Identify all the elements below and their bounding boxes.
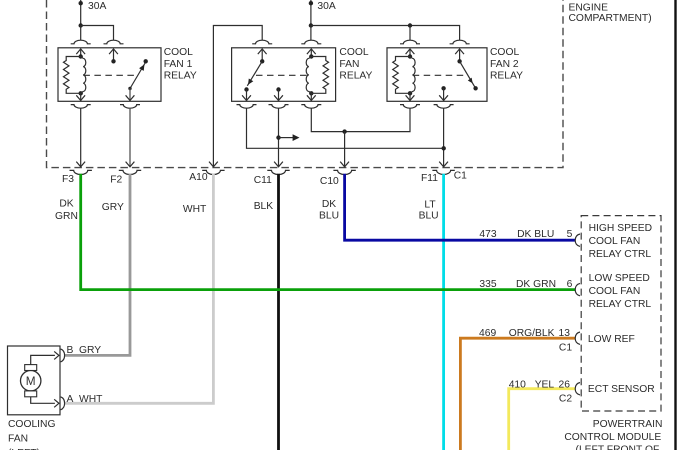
svg-text:A: A	[67, 394, 74, 405]
wire GRY F2 to cooling fan	[65, 174, 130, 356]
wire YEL to PCM pin 26	[509, 389, 576, 450]
wire relay1 coil to F3	[80, 108, 82, 166]
wire color labels	[55, 198, 439, 222]
relay K1 coil bottom arrow	[76, 93, 85, 101]
svg-text:C2: C2	[559, 394, 572, 405]
motor pin B label	[67, 345, 102, 356]
junction above F11	[442, 146, 446, 150]
fuse 1 30A feed wire	[79, 0, 107, 26]
svg-text:BLK: BLK	[254, 201, 274, 212]
wire relay1 switch to F2	[129, 108, 131, 166]
wire fuse1 to relay1 coil	[80, 26, 82, 41]
svg-text:C1: C1	[559, 343, 572, 354]
wire relay coils bus to C10	[311, 108, 410, 131]
svg-text:GRY: GRY	[79, 345, 101, 356]
relay K2 coil bottom arrow	[307, 93, 316, 101]
wire 469 ORG/BLK labels	[479, 328, 572, 353]
svg-text:30A: 30A	[88, 1, 106, 12]
connector F11	[432, 170, 454, 174]
relay K2 coil	[306, 54, 328, 95]
svg-text:BLU: BLU	[319, 210, 339, 221]
svg-text:RELAY: RELAY	[490, 71, 523, 82]
wire DK GRN F3 to PCM pin 6	[81, 174, 576, 290]
relay K3 coil top connector	[400, 40, 420, 44]
svg-text:C11: C11	[254, 175, 272, 186]
junction above C10	[342, 129, 346, 133]
connector F2	[119, 170, 141, 174]
svg-text:YEL: YEL	[535, 379, 555, 390]
arrow into C10	[340, 162, 349, 167]
svg-text:469: 469	[479, 328, 496, 339]
engine compartment label	[569, 2, 652, 24]
relay K1 coil	[63, 54, 85, 95]
svg-text:ORG/BLK: ORG/BLK	[509, 328, 555, 339]
svg-text:COOL: COOL	[164, 47, 193, 58]
svg-text:COOL FAN: COOL FAN	[589, 286, 641, 297]
svg-text:BLU: BLU	[419, 210, 439, 221]
svg-text:M: M	[26, 374, 36, 388]
connector pin labels	[62, 171, 467, 188]
relay K1 switch pin shaft	[126, 89, 135, 102]
relay K3 coil bottom arrow	[406, 93, 415, 101]
wire fuse2 down to cool fan relay coil	[310, 26, 312, 41]
wire 410 YEL labels	[509, 379, 573, 404]
relay K1 actuator dashed link	[83, 74, 136, 76]
cooling fan label	[8, 419, 56, 450]
motor pin A label	[67, 394, 104, 405]
connector C10	[333, 170, 355, 174]
svg-text:LT: LT	[424, 199, 436, 210]
svg-text:C10: C10	[320, 176, 339, 187]
svg-text:335: 335	[479, 279, 496, 290]
svg-text:DK BLU: DK BLU	[517, 229, 554, 240]
wire relay2 switch to junction bus	[247, 108, 444, 148]
relay K1 pin 86 top connector	[104, 40, 124, 44]
relay K2 bottom connectors	[237, 105, 322, 109]
relay K2 switch bottom pin	[242, 87, 251, 101]
relay K3 actuator dashed link	[413, 74, 466, 76]
relay K1 label	[164, 47, 197, 81]
svg-text:ENGINE: ENGINE	[569, 2, 609, 13]
powertrain control module dashed box	[581, 216, 661, 411]
cooling fan motor box	[8, 346, 61, 415]
relay K2 switch top pin	[258, 49, 267, 64]
relay K1 coil pin arrow	[76, 49, 85, 57]
svg-text:6: 6	[567, 279, 573, 290]
connector A10	[202, 170, 224, 174]
connector C11	[267, 170, 289, 174]
relay K3 switch top pin	[455, 49, 464, 64]
svg-text:WHT: WHT	[183, 204, 207, 215]
wire WHT A10 to cooling fan	[65, 174, 214, 403]
svg-text:RELAY CTRL: RELAY CTRL	[589, 299, 652, 310]
relay K3 COOL FAN 2 RELAY box	[387, 48, 487, 102]
PCM pin 6 connector arc	[575, 283, 580, 295]
relay K1 bottom connectors	[71, 105, 140, 109]
relay K1 coil pin 85 top connector	[71, 40, 91, 44]
svg-text:FAN: FAN	[339, 59, 359, 70]
svg-text:WHT: WHT	[79, 394, 103, 405]
wire DK BLU C10 to PCM pin 5	[345, 174, 576, 240]
off-page arrow at C11 junction	[279, 134, 300, 141]
wire 473 DK BLU labels	[479, 229, 572, 240]
motor pin B connector arc	[61, 349, 65, 362]
svg-text:COOLING: COOLING	[8, 419, 56, 430]
svg-text:COOL: COOL	[339, 47, 368, 58]
svg-text:LOW REF: LOW REF	[588, 334, 635, 345]
svg-text:473: 473	[479, 229, 496, 240]
relay K2 COOL FAN RELAY box	[232, 48, 336, 102]
svg-text:COOL FAN: COOL FAN	[589, 236, 641, 247]
relay K2 fixed contact stub pin	[274, 87, 283, 101]
svg-text:GRN: GRN	[55, 211, 78, 222]
svg-text:GRY: GRY	[102, 202, 124, 213]
junction under fuse 2	[309, 23, 313, 27]
relay K3 bottom connectors	[400, 105, 454, 109]
svg-text:POWERTRAIN: POWERTRAIN	[593, 419, 663, 430]
svg-text:FAN 2: FAN 2	[490, 59, 519, 70]
PCM name label	[564, 419, 662, 450]
svg-text:(LEFT FRONT OF: (LEFT FRONT OF	[576, 445, 660, 450]
relay K3 coil top arrow	[406, 49, 415, 57]
svg-text:ECT SENSOR: ECT SENSOR	[588, 384, 655, 395]
wire ORG/BLK to PCM pin 13	[460, 338, 575, 450]
svg-text:RELAY: RELAY	[339, 71, 372, 82]
wire junction to C10	[344, 132, 346, 167]
svg-text:DK: DK	[59, 198, 73, 209]
motor M1 symbol	[21, 365, 41, 397]
svg-text:COOL: COOL	[490, 47, 519, 58]
svg-text:B: B	[67, 345, 74, 356]
svg-text:F3: F3	[62, 174, 74, 185]
svg-text:F11: F11	[421, 173, 438, 184]
svg-text:DK GRN: DK GRN	[516, 279, 556, 290]
wire BLK C11 down	[277, 174, 280, 450]
svg-text:30A: 30A	[317, 1, 335, 12]
motor pin A connector arc	[61, 397, 65, 410]
svg-text:26: 26	[559, 379, 571, 390]
PCM pin 5 connector arc	[575, 234, 580, 246]
svg-text:C1: C1	[454, 171, 467, 182]
engine compartment dashed box	[47, 0, 564, 168]
wire A10 riser to cool fan relay switch	[213, 26, 262, 167]
svg-text:RELAY: RELAY	[164, 71, 197, 82]
relay K3 label	[490, 47, 523, 81]
arrow into F3	[76, 162, 85, 167]
connector F3	[70, 170, 92, 174]
arrow into A10	[209, 162, 218, 167]
relay K2 switch top connector	[252, 40, 272, 44]
relay K1 switch arm	[128, 59, 148, 90]
svg-text:LOW SPEED: LOW SPEED	[589, 273, 650, 284]
svg-text:13: 13	[559, 328, 571, 339]
wire fuse2 to relay coils and relay2 switch	[311, 26, 460, 41]
relay K3 switch arm	[460, 61, 478, 90]
svg-text:RELAY CTRL: RELAY CTRL	[589, 249, 652, 260]
wire fuse1 to relay1 pin2	[81, 26, 114, 41]
relay K2 switch arm	[247, 61, 262, 86]
svg-text:COMPARTMENT): COMPARTMENT)	[569, 13, 652, 24]
relay K2 label	[339, 47, 372, 81]
motor pin A wire	[31, 397, 59, 408]
fuse 2 30A feed wire	[309, 0, 336, 26]
page border line	[674, 0, 676, 450]
relay K2 coil top connector	[301, 40, 321, 44]
relay K3 switch output stub pin	[439, 86, 448, 101]
svg-text:FAN 1: FAN 1	[164, 59, 193, 70]
junction at relay2 coil feed	[408, 23, 412, 27]
relay K1 fixed contact stub	[109, 49, 118, 64]
arrow into F11	[439, 162, 448, 167]
relay K3 coil	[393, 54, 415, 95]
arrow into C11	[274, 162, 283, 167]
svg-text:F2: F2	[110, 174, 122, 185]
svg-text:410: 410	[509, 379, 526, 390]
wire relay3 output to F11	[443, 108, 445, 166]
junction on C11 wire	[276, 135, 280, 139]
PCM pin 13 connector arc	[575, 332, 580, 344]
svg-text:DK: DK	[322, 199, 336, 210]
PCM pin 26 connector arc	[575, 383, 580, 395]
junction under fuse 1	[79, 23, 83, 27]
svg-text:5: 5	[567, 229, 573, 240]
relay K2 coil top arrow	[307, 49, 316, 57]
relay K1 COOL FAN 1 RELAY box	[58, 48, 161, 102]
wire relay2 stub to C11	[278, 108, 280, 166]
PCM pin function labels	[588, 223, 655, 395]
svg-text:A10: A10	[189, 172, 208, 183]
relay K3 switch top connector	[450, 40, 470, 44]
wire LT BLU F11 down	[442, 174, 445, 450]
wire drop to relay2 coil	[409, 26, 411, 41]
svg-text:CONTROL MODULE: CONTROL MODULE	[564, 432, 661, 443]
wire 335 DK GRN labels	[479, 279, 572, 290]
motor pin B wire	[31, 351, 59, 364]
arrow into F2	[126, 162, 135, 167]
svg-text:HIGH SPEED: HIGH SPEED	[589, 223, 653, 234]
svg-text:FAN: FAN	[8, 434, 28, 445]
relay K2 actuator dashed link	[256, 74, 309, 76]
